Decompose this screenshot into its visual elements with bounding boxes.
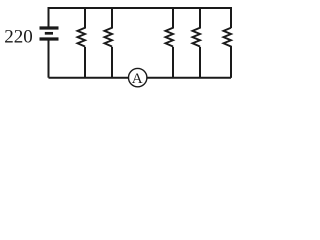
svg-text:220: 220 <box>4 27 33 48</box>
svg-text:A: A <box>132 71 143 87</box>
